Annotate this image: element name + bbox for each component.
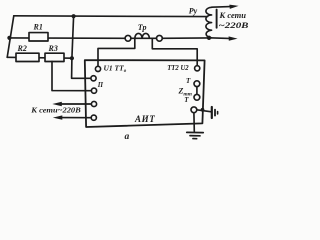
wire right bracket (Tr right to TT2) bbox=[152, 38, 197, 65]
svg-text:R3: R3 bbox=[48, 44, 58, 53]
wire vertical from top bus to R2R3 junction bbox=[72, 16, 74, 58]
arrow mains upper left bbox=[52, 102, 62, 106]
arrow mains bottom right bbox=[229, 36, 238, 40]
node junction left edge bbox=[7, 36, 11, 40]
wire Tr to autotransformer bbox=[162, 37, 209, 39]
wire mains lower left bbox=[61, 117, 91, 119]
inductor Tr bbox=[131, 33, 157, 38]
impedance Ztt link bbox=[196, 87, 198, 95]
wire mains bottom right bbox=[209, 37, 229, 40]
resistor R3 bbox=[45, 53, 64, 61]
svg-text:Ру: Ру bbox=[189, 6, 198, 15]
wire to chassis ground bbox=[197, 110, 212, 112]
svg-text:ТТ2 U2: ТТ2 U2 bbox=[167, 63, 189, 72]
svg-text:R2: R2 bbox=[17, 44, 27, 53]
terminal U1 bbox=[95, 66, 100, 71]
svg-text:Тр: Тр bbox=[138, 23, 147, 32]
chassis ground right bbox=[211, 107, 213, 118]
wire top bus bbox=[14, 15, 208, 18]
svg-text:а: а bbox=[125, 132, 130, 142]
wire junction to terminal P bbox=[72, 58, 91, 78]
svg-text:~220В: ~220В bbox=[219, 21, 250, 30]
terminal ground bbox=[191, 107, 197, 113]
wire R2R3 row bbox=[7, 56, 72, 59]
wire R1 row bbox=[9, 37, 125, 39]
svg-text:К сети~220В: К сети~220В bbox=[30, 106, 81, 115]
terminal Tr left bbox=[125, 35, 131, 41]
wire R3 tap to terminal 3 bbox=[52, 62, 91, 91]
terminal Tr right bbox=[157, 35, 163, 41]
box AIT enclosure bbox=[85, 60, 205, 127]
earth ground bbox=[187, 131, 203, 133]
svg-text:U1 ТТо: U1 ТТо bbox=[104, 64, 127, 75]
svg-text:Т: Т bbox=[186, 77, 191, 85]
resistor R2 bbox=[16, 53, 39, 61]
node junction on box edge bbox=[201, 108, 205, 112]
wire mains top right bbox=[212, 6, 230, 9]
svg-text:R1: R1 bbox=[33, 22, 43, 31]
wire mains upper left bbox=[61, 103, 92, 105]
svg-text:П: П bbox=[97, 82, 104, 89]
svg-text:К сети: К сети bbox=[218, 11, 246, 20]
node junction R2R3 right bbox=[70, 56, 74, 60]
autotransformer Ru coil bbox=[206, 7, 212, 38]
arrow mains top right bbox=[229, 5, 238, 9]
terminal T lower bbox=[194, 94, 200, 100]
node junction autotransformer bottom bbox=[207, 36, 211, 40]
terminal P bbox=[91, 76, 96, 81]
svg-text:АИТ: АИТ bbox=[134, 114, 155, 124]
wire Tr row left bbox=[125, 37, 131, 39]
wire to earth ground bbox=[193, 113, 195, 132]
terminal T upper bbox=[194, 81, 200, 87]
terminal 4 bbox=[91, 101, 96, 106]
autotransformer core bbox=[216, 10, 218, 28]
wire left bracket (Tr left to U1) bbox=[98, 38, 135, 66]
resistor R1 bbox=[29, 33, 48, 41]
terminal TT2 U2 bbox=[195, 66, 200, 71]
arrow mains lower left bbox=[53, 115, 63, 119]
svg-text:Т: Т bbox=[184, 96, 189, 104]
terminal 5 bbox=[91, 115, 96, 120]
node junction top bus bbox=[72, 14, 76, 18]
wire left edge bbox=[7, 16, 14, 58]
terminal 3 bbox=[91, 88, 96, 93]
